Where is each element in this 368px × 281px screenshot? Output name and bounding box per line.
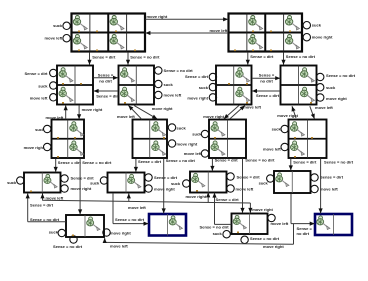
svg-text:move right: move right [110, 231, 131, 236]
svg-text:suck: suck [312, 23, 322, 28]
svg-text:Sense = no dirt: Sense = no dirt [324, 160, 354, 165]
svg-text:move left: move left [46, 115, 64, 120]
svg-text:move right: move right [277, 113, 298, 118]
svg-text:Sense = dirt: Sense = dirt [293, 160, 317, 165]
svg-text:Sense = no dirt: Sense = no dirt [245, 158, 275, 163]
svg-text:Sense = no dirt: Sense = no dirt [30, 217, 60, 222]
svg-text:Sense = dirt: Sense = dirt [320, 174, 344, 179]
svg-text:move right: move right [154, 187, 175, 192]
svg-text:move left: move left [210, 28, 228, 33]
svg-text:Sense = dirt: Sense = dirt [216, 197, 240, 202]
svg-text:move right: move right [82, 107, 103, 112]
svg-text:move right: move right [152, 106, 173, 111]
svg-text:move left: move left [45, 36, 63, 41]
svg-text:move left: move left [110, 243, 128, 248]
svg-text:suck: suck [90, 181, 100, 186]
svg-text:no dirt: no dirt [99, 78, 112, 83]
svg-text:suck: suck [171, 181, 181, 186]
svg-text:move right: move right [263, 244, 284, 249]
svg-text:move left: move left [315, 105, 333, 110]
svg-text:Sense = no dirt: Sense = no dirt [166, 158, 196, 163]
svg-text:move right: move right [187, 95, 208, 100]
svg-text:no dirt: no dirt [260, 79, 273, 84]
svg-text:suck: suck [272, 127, 282, 132]
svg-text:Sense = dirt: Sense = dirt [256, 93, 280, 98]
svg-text:Sense = dirt: Sense = dirt [250, 54, 274, 59]
svg-text:suck: suck [192, 132, 202, 137]
svg-text:move right: move right [186, 194, 207, 199]
svg-text:move right: move right [326, 96, 347, 101]
svg-text:Sense = no dirt: Sense = no dirt [53, 244, 83, 249]
svg-text:Sense = dirt: Sense = dirt [30, 203, 54, 208]
svg-text:Sense = dirt: Sense = dirt [96, 93, 120, 98]
svg-text:move left: move left [236, 186, 254, 191]
svg-text:move left: move left [128, 205, 146, 210]
svg-text:no dirt: no dirt [297, 231, 310, 236]
svg-text:move right: move right [71, 186, 92, 191]
svg-text:move left: move left [117, 114, 135, 119]
svg-text:move left: move left [320, 186, 338, 191]
svg-text:suck: suck [35, 127, 45, 132]
svg-text:suck: suck [213, 231, 223, 236]
svg-text:Sense = no dirt: Sense = no dirt [82, 160, 112, 165]
svg-text:Sense = no dirt: Sense = no dirt [326, 73, 356, 78]
svg-text:Sense = no dirt: Sense = no dirt [115, 217, 145, 222]
svg-text:Sense = dirt: Sense = dirt [24, 71, 48, 76]
svg-text:Sense = no dirt: Sense = no dirt [286, 54, 316, 59]
svg-text:suck: suck [7, 180, 17, 185]
svg-text:move left: move left [184, 151, 202, 156]
svg-text:move left: move left [263, 147, 281, 152]
svg-text:Sense = dirt: Sense = dirt [185, 74, 209, 79]
svg-text:move right: move right [252, 207, 273, 212]
svg-text:Sense =: Sense = [259, 73, 275, 78]
svg-text:Sense = dirt: Sense = dirt [215, 158, 239, 163]
svg-text:Sense = dirt: Sense = dirt [237, 174, 261, 179]
svg-text:Sense = dirt: Sense = dirt [58, 160, 82, 165]
svg-text:move right: move right [24, 145, 45, 150]
svg-text:suck: suck [177, 125, 187, 130]
svg-text:move left: move left [243, 105, 261, 110]
svg-text:suck: suck [38, 83, 48, 88]
svg-text:suck: suck [49, 229, 59, 234]
svg-text:move left: move left [46, 195, 64, 200]
svg-text:suck: suck [164, 82, 174, 87]
svg-text:Sense = no dirt: Sense = no dirt [130, 55, 160, 60]
svg-text:move right: move right [177, 141, 198, 146]
svg-text:move right: move right [147, 14, 168, 19]
svg-text:suck: suck [199, 85, 209, 90]
svg-text:Sense =: Sense = [98, 72, 114, 77]
svg-text:suck: suck [53, 23, 63, 28]
svg-text:suck: suck [326, 85, 336, 90]
svg-text:suck: suck [259, 180, 269, 185]
svg-text:move left: move left [30, 95, 48, 100]
svg-text:move right: move right [203, 114, 224, 119]
svg-text:Sense = dirt: Sense = dirt [154, 175, 178, 180]
svg-text:Sense = dirt: Sense = dirt [92, 55, 116, 60]
svg-text:Sense = no dirt: Sense = no dirt [200, 224, 230, 229]
svg-text:move left: move left [164, 92, 182, 97]
svg-text:Sense = no dirt: Sense = no dirt [250, 236, 280, 241]
svg-text:move right: move right [312, 34, 333, 39]
svg-text:move left: move left [271, 221, 289, 226]
svg-text:Sense = no dirt: Sense = no dirt [164, 68, 194, 73]
svg-text:Sense = dirt: Sense = dirt [138, 159, 162, 164]
